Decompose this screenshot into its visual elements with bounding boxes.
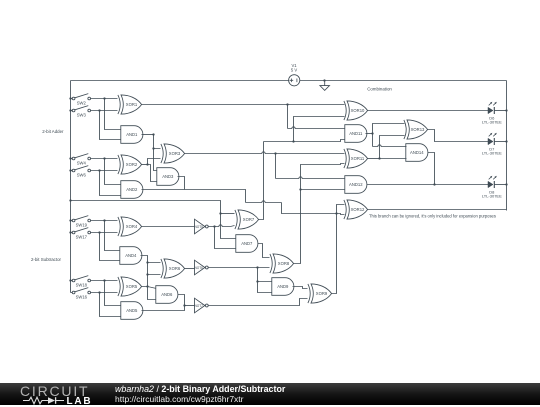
svg-text:NOT6: NOT6: [194, 266, 203, 270]
junction SW19 tap: [103, 219, 105, 221]
svg-text:XOR10: XOR10: [351, 108, 365, 113]
wire SW2 tap to AND1 in1: [105, 99, 122, 130]
junction at ground on power rail: [323, 79, 325, 81]
svg-text:SW16: SW16: [76, 294, 88, 299]
junction rail-SW16: [69, 291, 71, 293]
wire AND4 net down2: [147, 275, 149, 287]
wire AND2 carry zigzag: [142, 190, 246, 203]
op AND4: [120, 247, 142, 265]
wire SW19 tap to AND4 in1: [105, 221, 120, 251]
junction XOR2 out: [146, 163, 148, 165]
svg-text:Combination: Combination: [367, 86, 392, 91]
svg-text:XOR8: XOR8: [278, 261, 290, 266]
junction NOT5 out tap: [213, 225, 215, 227]
junction XOR3 row: [274, 152, 276, 154]
wire AND3 out to carry row: [178, 177, 185, 190]
svg-text:SW4: SW4: [77, 160, 87, 165]
junction rail-SW3: [69, 109, 71, 111]
junction D8 rail: [505, 183, 507, 185]
wire XOR11 to XOR13 in2: [380, 136, 405, 159]
switch SW17: [71, 228, 91, 240]
svg-text:SW3: SW3: [77, 112, 87, 117]
op AND2: [121, 181, 143, 199]
wire SW6 to XOR2 in2: [91, 170, 118, 172]
wire XOR12 out to rail: [368, 209, 507, 211]
op XOR4: [118, 217, 142, 236]
CircuitLab logo: [20, 383, 89, 399]
wire SW4 to XOR2 in1: [91, 158, 118, 160]
junction D6 rail: [505, 109, 507, 111]
wire AND5 out: [142, 306, 185, 311]
junction SW18 tap: [103, 279, 105, 281]
wire XOR5 out to AND6 in1: [142, 287, 157, 289]
wire NOT6 drop: [258, 268, 273, 282]
wire XOR9 out riser: [332, 205, 345, 294]
junction NOT6 out: [256, 266, 258, 268]
junction XOR5 out: [146, 285, 148, 287]
junction SW3 tap: [98, 109, 100, 111]
junction SW16 tap: [98, 291, 100, 293]
wire XOR8 out riser: [294, 164, 345, 264]
wire NOT6 to AND9 in2: [258, 282, 273, 293]
junction SW17 tap: [98, 231, 100, 233]
junction AND14 on D8 row: [433, 183, 435, 185]
op XOR9: [308, 284, 332, 303]
junction XOR7 row: [292, 140, 294, 142]
junction AND11 out: [371, 132, 373, 134]
svg-text:XOR12: XOR12: [351, 207, 365, 212]
switch SW18: [71, 276, 91, 288]
footer bar: [0, 383, 540, 405]
wire AND14 out riser: [428, 153, 435, 185]
junction NOT6 drop b: [256, 280, 258, 282]
svg-text:AND5: AND5: [126, 308, 138, 313]
op AND11: [345, 125, 367, 143]
svg-text:AND1: AND1: [126, 132, 138, 137]
op XOR13: [404, 120, 428, 139]
svg-text:AND3: AND3: [162, 174, 174, 179]
op NOT5: [194, 219, 208, 234]
switch SW3: [71, 106, 91, 118]
footer url: [115, 394, 244, 404]
op AND14: [406, 144, 428, 162]
junction SW6 tap: [98, 169, 100, 171]
junction XOR1 row: [286, 103, 288, 105]
svg-text:5 V: 5 V: [291, 68, 297, 73]
wire SW16 tap to AND5 in2: [100, 293, 122, 317]
wire AND11 to AND14 in1: [372, 134, 374, 147]
switch SW4: [71, 154, 91, 166]
op AND6: [156, 286, 178, 304]
wire XOR1 to AND11 in1: [288, 127, 346, 129]
led D6: [482, 102, 502, 125]
wire AND6 out: [178, 295, 185, 306]
wire SW17 tap to AND4 in2: [100, 233, 120, 261]
switch SW2: [71, 94, 91, 106]
junction rail-SW4: [69, 157, 71, 159]
op XOR6: [161, 259, 185, 278]
wire D8 to rail: [495, 184, 507, 186]
svg-text:SW18: SW18: [76, 282, 88, 287]
svg-text:2-bit Adder: 2-bit Adder: [42, 129, 64, 134]
junction rail-SW19: [69, 219, 71, 221]
svg-text:NOT5: NOT5: [194, 225, 203, 229]
wire join to NOT7: [185, 305, 195, 307]
op XOR10: [344, 101, 368, 120]
svg-text:AND9: AND9: [277, 284, 289, 289]
junction rail-SW18: [69, 279, 71, 281]
junction XOR8 riser AND12 tap: [299, 188, 301, 190]
wire AND11 out: [366, 133, 373, 135]
wire NOT6 out to XOR8 in2: [209, 267, 270, 269]
op XOR11: [344, 149, 368, 168]
svg-text:AND6: AND6: [161, 292, 173, 297]
wire right power rail: [506, 81, 508, 211]
op AND3: [157, 168, 179, 186]
junction rail-SW17: [69, 231, 71, 233]
wire SW4 tap to AND2 in1: [105, 159, 122, 185]
wire SW18 tap to AND5 in1: [105, 281, 122, 306]
wire bus to XOR7 in1: [221, 213, 235, 215]
wire riser to XOR10 in2: [294, 117, 345, 142]
voltage source V1: [289, 63, 300, 86]
svg-text:AND14: AND14: [410, 150, 424, 155]
wire SW2 to XOR1 in1: [91, 98, 118, 100]
svg-text:AND7: AND7: [241, 241, 253, 246]
wire SW18 to XOR5 in1: [91, 280, 118, 282]
junction zigzag XOR9 riser: [335, 212, 337, 214]
wire XOR6 out to NOT6: [185, 268, 195, 270]
svg-text:SW2: SW2: [77, 100, 87, 105]
svg-text:LTL-307EE: LTL-307EE: [482, 119, 502, 124]
wire SW3 to XOR1 in2: [91, 110, 118, 112]
wire D7 to rail: [495, 141, 507, 143]
svg-text:LTL-307EE: LTL-307EE: [482, 150, 502, 155]
op XOR8: [270, 254, 294, 273]
wire left power rail: [70, 81, 72, 293]
wire AND1 out: [142, 134, 154, 136]
wire XOR2 out: [142, 164, 148, 166]
junction bus XOR7 tap: [219, 212, 221, 214]
wire NOT5 to AND7 in2: [215, 227, 237, 249]
wire SW3 tap to AND1 in2: [100, 111, 122, 140]
op AND12: [345, 176, 367, 194]
wire AND7 out to XOR8 in1: [258, 244, 270, 258]
svg-text:2-bit Subtractor: 2-bit Subtractor: [31, 257, 62, 262]
op XOR3: [161, 144, 185, 163]
led D7: [482, 133, 502, 156]
wire AND9 out to XOR9 in1: [293, 287, 308, 289]
wire XOR1 out row: [142, 104, 345, 106]
junction AND1 out: [152, 133, 154, 135]
op AND9: [272, 278, 294, 296]
wire XOR3 to AND12 in1: [276, 177, 346, 179]
svg-text:SW6: SW6: [77, 172, 87, 177]
svg-text:XOR6: XOR6: [169, 266, 181, 271]
junction SW2 tap: [103, 97, 105, 99]
wire SW19 to XOR4 in1: [91, 220, 118, 222]
wire XOR7 out riser: [259, 142, 264, 220]
junction rail-SW2: [69, 97, 71, 99]
wire D6 to rail: [495, 110, 507, 112]
footer title: [115, 384, 285, 394]
svg-text:LTL-307EE: LTL-307EE: [482, 193, 502, 198]
svg-text:AND11: AND11: [349, 131, 363, 136]
switch SW6: [71, 166, 91, 178]
wire NOT7 out to XOR9 in2: [209, 299, 308, 306]
wire bus to AND7 in1: [221, 214, 237, 239]
svg-text:SW19: SW19: [76, 222, 88, 227]
junction SW4 tap: [103, 157, 105, 159]
op XOR7: [235, 210, 259, 229]
op XOR2: [118, 155, 142, 174]
junction rail bus: [69, 199, 71, 201]
switch SW16: [71, 288, 91, 300]
wire XOR10 to LED D6: [368, 110, 489, 112]
junction D7 rail: [505, 140, 507, 142]
svg-text:AND2: AND2: [126, 187, 138, 192]
wire XOR7 row to AND11 in2: [264, 140, 346, 142]
op XOR12: [344, 200, 368, 219]
wire net to AND6 in2: [148, 287, 157, 300]
wire XOR2 to AND3 in2: [148, 165, 158, 182]
wire AND4 out to XOR6: [141, 256, 161, 263]
svg-text:XOR11: XOR11: [351, 156, 365, 161]
junction AND4 net b: [146, 273, 148, 275]
wire SW6 tap to AND2 in2: [100, 171, 122, 196]
op AND5: [121, 302, 143, 320]
svg-text:XOR7: XOR7: [243, 217, 255, 222]
wire NOT5 out: [209, 225, 231, 227]
switch SW19: [71, 216, 91, 228]
op XOR1: [118, 95, 142, 114]
svg-text:XOR13: XOR13: [411, 127, 425, 132]
svg-text:XOR1: XOR1: [126, 102, 138, 107]
wire tap to AND12 in2: [301, 189, 346, 191]
op AND1: [121, 126, 143, 144]
junction AND4 net a: [146, 261, 148, 263]
wire SW17 to XOR4 in2: [91, 232, 118, 234]
svg-text:XOR5: XOR5: [126, 284, 138, 289]
svg-text:AND4: AND4: [125, 253, 137, 258]
junction rail-SW6: [69, 169, 71, 171]
op NOT7: [194, 298, 208, 313]
ground: [320, 80, 330, 90]
wire SW16 to XOR5 in2: [91, 292, 118, 294]
op XOR5: [118, 277, 142, 296]
wire zigzag into XOR12 in2: [337, 214, 345, 215]
svg-text:AND12: AND12: [349, 182, 363, 187]
junction XOR11 out: [378, 157, 380, 159]
wire XOR11 out: [368, 158, 380, 160]
wire XOR4 out to NOT5: [142, 226, 195, 228]
svg-text:XOR2: XOR2: [126, 162, 138, 167]
svg-text:This branch can be ignored, it: This branch can be ignored, it's only in…: [369, 214, 496, 219]
wire XOR2 to XOR3 in2: [148, 159, 161, 165]
wire XOR11 to AND14 in2: [380, 158, 407, 160]
wire AND1 to XOR3 in1: [154, 135, 161, 149]
op NOT6: [194, 260, 208, 275]
svg-text:SW17: SW17: [76, 234, 88, 239]
junction AND1 branch: [152, 147, 154, 149]
svg-text:XOR4: XOR4: [126, 224, 138, 229]
wire AND4 net down1: [148, 263, 161, 275]
op AND7: [236, 235, 258, 253]
wire XOR3 out row: [185, 152, 345, 154]
svg-text:NOT7: NOT7: [194, 304, 203, 308]
led D8: [482, 176, 502, 199]
svg-text:XOR3: XOR3: [169, 151, 181, 156]
wire XOR13 to LED D7: [428, 130, 489, 142]
wire AND12 to LED D8: [367, 184, 489, 186]
wire top power rail: [71, 80, 507, 82]
wire carry bus: [71, 201, 221, 214]
junction AND5-AND6 join: [183, 304, 185, 306]
wire AND11 to XOR13 in1: [373, 124, 405, 134]
wire AND1 to AND3 in1: [154, 149, 158, 171]
svg-text:XOR9: XOR9: [316, 291, 328, 296]
